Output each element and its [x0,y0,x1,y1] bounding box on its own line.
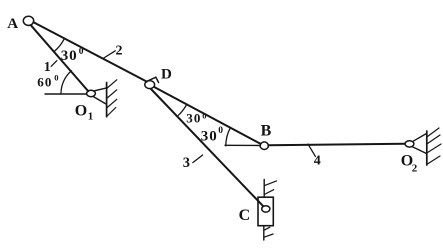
svg-text:3: 3 [183,155,190,171]
link 4 (B to O2) [268,144,404,145]
svg-text:0: 0 [79,47,84,57]
label B [261,123,272,140]
joint D (pin circle) [145,81,155,89]
link 2 (A to D) [34,22,147,81]
joint B (pin circle) [260,142,268,150]
angle 30 deg arc at D [178,104,186,115]
label A [7,16,18,32]
fixed pivot O1 (pin circle) [87,90,96,96]
kink stroke above D [147,77,159,82]
O1 support bracket upper link [94,88,107,91]
label D [161,67,172,83]
svg-text:1: 1 [88,111,94,123]
O2 ground wall [426,131,428,165]
svg-text:A: A [7,16,18,32]
angle 30 label at D [186,110,206,125]
joint C (pin circle) [262,206,270,212]
angle 30 deg arc at B [226,128,231,146]
svg-text:2: 2 [116,43,123,58]
O2 support bracket upper link [413,133,427,141]
svg-text:C: C [239,207,251,224]
leader for label 3 [193,155,203,163]
angle 30 label at A [61,47,84,64]
horizontal reference line at B [225,144,260,146]
svg-text:O: O [75,103,87,120]
label O2 [401,153,418,175]
svg-text:0: 0 [202,110,206,120]
O2 ground hatching [427,128,441,164]
O1 ground hatching [107,80,117,117]
angle 30 deg arc at A [55,39,64,51]
slider C guide upper hatching [264,181,276,195]
tick for label 1 [51,61,57,67]
horizontal reference line at O1 [45,93,87,95]
link 3 (D to C) [151,89,263,206]
angle 60 deg arc at O1 [61,71,71,94]
svg-text:30: 30 [186,111,201,126]
angle 30 label at B [201,126,223,145]
label 3 [183,155,190,171]
label C [239,207,251,224]
O1 support bracket lower link [93,96,106,104]
svg-text:0: 0 [54,72,58,82]
svg-text:0: 0 [218,126,223,136]
svg-text:2: 2 [412,163,418,175]
O2 support bracket lower link [412,147,426,154]
svg-text:B: B [261,123,272,140]
slider C guide lower hatching [264,227,273,237]
fixed pivot O2 (pin circle) [405,141,414,147]
svg-text:D: D [161,67,172,83]
label 4 [314,154,321,169]
joint A (pin circle) [23,16,33,25]
slider C guide upper line [263,180,265,198]
link DB (D to B) [154,87,260,144]
svg-text:1: 1 [44,60,51,75]
angle 60 label at O1 [37,72,58,89]
slider C block [258,197,273,226]
slider C guide lower line [263,226,265,240]
svg-text:30: 30 [61,48,78,64]
label O1 [75,103,94,123]
leader for label 2 [103,51,115,59]
leader for label 4 [308,144,315,156]
link 1 (A to O1) [31,25,88,91]
svg-text:30: 30 [201,129,218,145]
svg-text:4: 4 [314,154,321,169]
svg-text:60: 60 [37,75,52,90]
label 1 [44,60,51,75]
label 2 [116,43,123,58]
O1 ground wall [106,83,108,117]
